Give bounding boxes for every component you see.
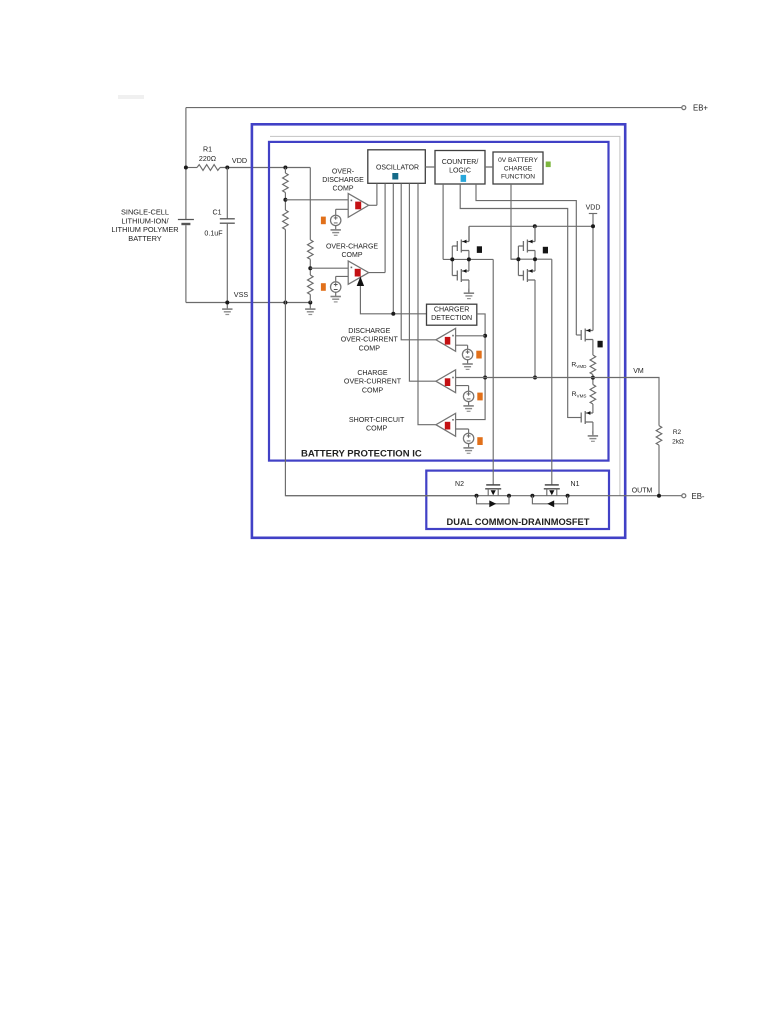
svg-text:VDD: VDD: [586, 205, 601, 212]
svg-text:LOGIC: LOGIC: [449, 168, 471, 175]
svg-text:VSS: VSS: [234, 290, 249, 299]
svg-text:CHARGE: CHARGE: [357, 369, 388, 377]
svg-text:R1: R1: [203, 146, 212, 154]
svg-text:LITHIUM POLYMER: LITHIUM POLYMER: [111, 225, 178, 234]
svg-text:FUNCTION: FUNCTION: [501, 174, 535, 181]
svg-text:N2: N2: [455, 481, 464, 488]
svg-text:SHORT-CIRCUIT: SHORT-CIRCUIT: [349, 416, 405, 424]
svg-text:220Ω: 220Ω: [199, 155, 216, 163]
svg-text:COMP: COMP: [359, 344, 381, 352]
svg-text:COMP: COMP: [342, 252, 363, 259]
svg-text:BATTERY: BATTERY: [128, 234, 161, 243]
svg-text:SINGLE-CELL: SINGLE-CELL: [121, 208, 169, 217]
svg-text:R2: R2: [673, 429, 682, 436]
svg-text:C1: C1: [212, 209, 221, 217]
svg-text:0V BATTERY: 0V BATTERY: [498, 157, 538, 164]
svg-text:DISCHARGE: DISCHARGE: [322, 177, 364, 184]
svg-text:OVER-CHARGE: OVER-CHARGE: [326, 243, 378, 250]
svg-text:BATTERY PROTECTION IC: BATTERY PROTECTION IC: [301, 449, 422, 460]
svg-text:OVER-CURRENT: OVER-CURRENT: [344, 378, 402, 386]
svg-text:DUAL COMMON-DRAINMOSFET: DUAL COMMON-DRAINMOSFET: [447, 517, 590, 527]
svg-text:OUTM: OUTM: [632, 488, 653, 495]
svg-text:DETECTION: DETECTION: [431, 314, 472, 322]
svg-text:COMP: COMP: [366, 424, 388, 432]
svg-text:LITHIUM-ION/: LITHIUM-ION/: [121, 216, 169, 225]
svg-text:VDD: VDD: [232, 156, 247, 165]
svg-text:CHARGE: CHARGE: [504, 165, 533, 172]
svg-text:COMP: COMP: [362, 386, 384, 394]
svg-text:DISCHARGE: DISCHARGE: [348, 327, 390, 335]
svg-text:2kΩ: 2kΩ: [672, 439, 684, 446]
svg-text:0.1uF: 0.1uF: [204, 229, 223, 237]
svg-text:COMP: COMP: [333, 185, 354, 192]
svg-text:COUNTER/: COUNTER/: [442, 159, 479, 166]
svg-text:EB+: EB+: [693, 104, 708, 113]
svg-text:CHARGER: CHARGER: [434, 305, 469, 313]
svg-text:OSCILLATOR: OSCILLATOR: [376, 164, 419, 171]
svg-text:OVER-CURRENT: OVER-CURRENT: [341, 336, 399, 344]
svg-text:EB-: EB-: [692, 492, 705, 501]
svg-text:OVER-: OVER-: [332, 168, 355, 175]
svg-text:N1: N1: [571, 481, 580, 488]
svg-text:VM: VM: [633, 368, 644, 375]
